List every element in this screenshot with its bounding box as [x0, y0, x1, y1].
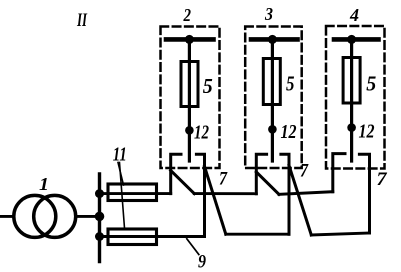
- blade: cell 3 left contact to outgoing upper wire: [256, 172, 279, 194]
- busbar stub T (cell 3): [251, 37, 298, 42]
- node 12 dot (cell 4): [347, 123, 356, 132]
- node 12 dot (cell 2): [185, 126, 194, 135]
- wire: cell 3 lower outgoing to cell 4 right contact: [311, 233, 369, 235]
- left fixed contact hook (cell 3): [256, 154, 266, 193]
- svg-text:5: 5: [366, 72, 376, 96]
- wire 9 (lower feeder from fuse 11b) leader: [187, 239, 199, 255]
- junction dot (bus / transformer): [95, 212, 105, 222]
- pin conductor (cell 2): T-bar through fuse to contact tip: [188, 39, 191, 161]
- right fixed contact hook + riser (cell 3): [281, 154, 289, 234]
- junction dot (bus / fuse 11b): [95, 232, 104, 241]
- svg-text:4: 4: [349, 5, 359, 25]
- left fixed contact hook (cell 2): [171, 154, 181, 193]
- wire: cell 2 upper outgoing to cell 3 left contact: [194, 192, 256, 195]
- blade: cell 2 right contact to outgoing lower wire: [205, 167, 226, 235]
- svg-text:1: 1: [39, 174, 49, 194]
- node 12 dot (cell 3): [268, 125, 277, 134]
- fuse 5 (cell 3): [263, 59, 280, 105]
- busbar stub T (cell 2): [166, 37, 214, 42]
- wire: cell 2 lower outgoing to cell 3 right contact: [226, 233, 289, 236]
- junction dot on T (cell 4): [347, 35, 356, 44]
- wire: left edge to transformer: [0, 215, 14, 218]
- leader: label 11 to fuse 11b: [120, 163, 125, 229]
- junction dot on T (cell 2): [185, 35, 194, 44]
- svg-text:5: 5: [286, 72, 295, 96]
- cell 4 enclosure (dashed): [326, 26, 385, 169]
- left fixed contact hook (cell 4): [333, 154, 345, 192]
- svg-text:12: 12: [359, 121, 375, 143]
- blade: cell 3 right contact to outgoing lower wire: [289, 166, 311, 236]
- svg-text:12: 12: [281, 121, 297, 143]
- svg-text:12: 12: [194, 122, 209, 144]
- svg-text:7: 7: [300, 161, 309, 182]
- wire: cell 3 upper outgoing to cell 4 left contact: [279, 192, 333, 195]
- fuse 5 (cell 4): [343, 58, 360, 104]
- right fixed contact hook + riser (cell 4): [359, 154, 369, 233]
- wire: bus to cell 2 right contact (through fuse 11b): [100, 235, 205, 238]
- pin conductor (cell 4): [350, 39, 353, 161]
- wire: transformer to bus: [76, 215, 100, 218]
- junction dot on T (cell 3): [268, 35, 277, 44]
- busbar stub T (cell 4): [334, 37, 379, 42]
- svg-text:II: II: [76, 10, 87, 31]
- junction dot (bus / fuse 11a): [95, 189, 104, 198]
- transformer 1: [14, 195, 76, 237]
- blade: cell 2 left contact to outgoing upper wire: [171, 171, 195, 194]
- fuse 5 (cell 2): [181, 62, 198, 107]
- wire: bus to cell 2 left contact (through fuse 11a): [100, 192, 171, 195]
- bus (vertical): [98, 174, 101, 262]
- pin conductor (cell 3): [271, 39, 274, 161]
- svg-text:5: 5: [203, 74, 213, 98]
- cell 2 enclosure (dashed): [161, 27, 220, 169]
- cell 3 enclosure (dashed): [245, 27, 302, 169]
- fuse 11a (top): [108, 184, 157, 201]
- svg-text:7: 7: [377, 169, 389, 190]
- leader: label 11 to fuse 11a: [118, 163, 124, 186]
- svg-text:2: 2: [183, 5, 192, 25]
- right fixed contact hook + riser to fuse 11b wire (cell 2): [196, 154, 204, 236]
- svg-text:9: 9: [198, 252, 206, 272]
- svg-text:7: 7: [219, 169, 228, 190]
- svg-text:3: 3: [264, 4, 273, 24]
- fuse 11b (bottom): [108, 229, 157, 245]
